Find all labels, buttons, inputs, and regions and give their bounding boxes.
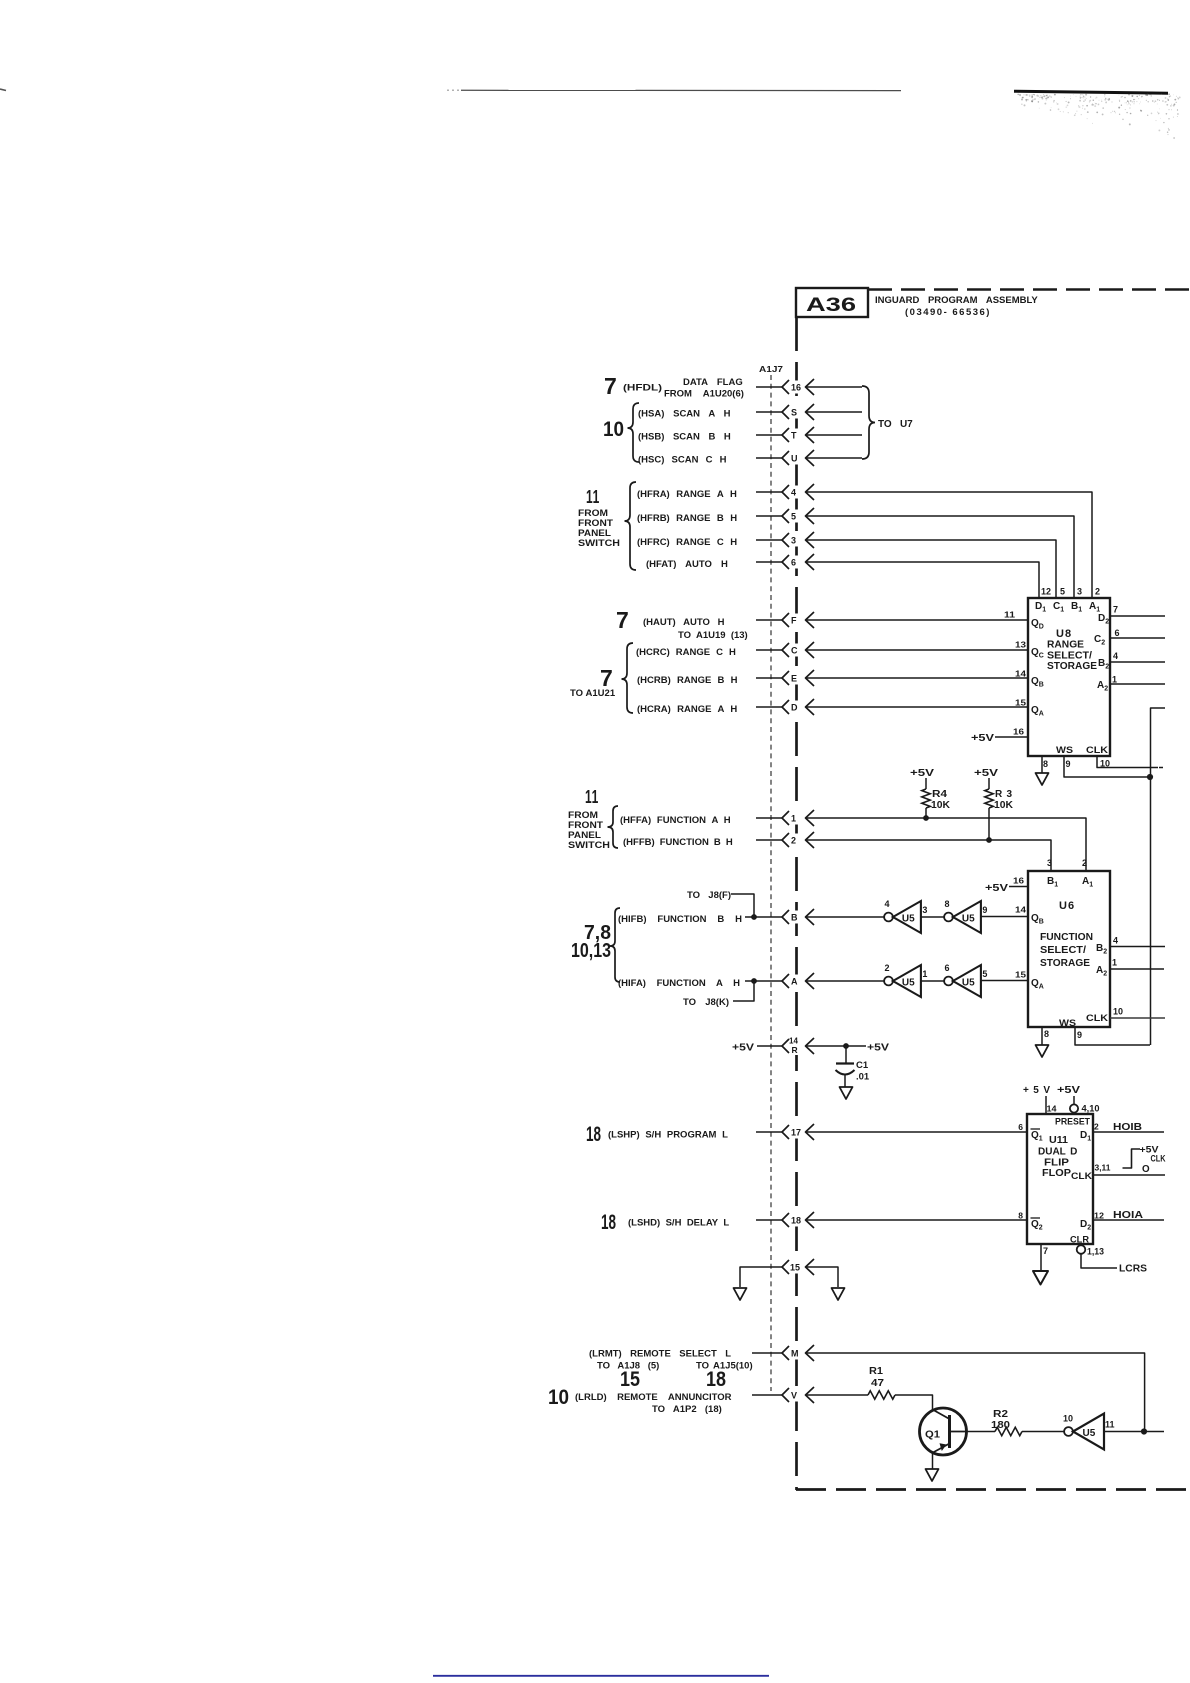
- svg-text:R: R: [792, 1045, 798, 1055]
- wire U8 output C2 pin 6: [1110, 637, 1165, 639]
- svg-text:8: 8: [1043, 759, 1048, 769]
- svg-text:18: 18: [791, 1215, 801, 1225]
- svg-text:Q1: Q1: [925, 1429, 940, 1441]
- svg-text:FRONT: FRONT: [568, 820, 604, 830]
- svg-text:3: 3: [1077, 587, 1082, 597]
- svg-text:16: 16: [1013, 727, 1024, 737]
- wire U8 WS pin 9: [1064, 756, 1148, 777]
- svg-text:7: 7: [1043, 1246, 1048, 1256]
- wire U6 CLK pin 10: [1110, 1017, 1165, 1019]
- svg-text:1,13: 1,13: [1087, 1247, 1104, 1257]
- transistor Q1: [920, 1408, 967, 1455]
- svg-text:3: 3: [791, 535, 796, 545]
- capacitor C1 .01: [836, 1046, 870, 1087]
- svg-text:STORAGE: STORAGE: [1040, 958, 1090, 969]
- svg-text:3,11: 3,11: [1095, 1163, 1111, 1173]
- svg-text:15: 15: [620, 1368, 640, 1391]
- wire Q1 collector to R2: [967, 1431, 996, 1433]
- svg-text:6: 6: [791, 557, 796, 567]
- svg-text:RANGE: RANGE: [1047, 640, 1084, 651]
- connector pin B (HIFB): [618, 890, 884, 925]
- svg-text:E: E: [791, 673, 797, 683]
- wire U8 CLK pin 10: [1097, 756, 1158, 768]
- svg-text:11: 11: [1105, 1420, 1115, 1430]
- wire Q1 emitter to ground: [932, 1454, 934, 1470]
- svg-text:(HSB) SCAN B H: (HSB) SCAN B H: [638, 432, 731, 443]
- svg-text:F: F: [791, 615, 797, 625]
- svg-text:(HFDL): (HFDL): [623, 383, 662, 394]
- svg-text:TO A1U21: TO A1U21: [570, 688, 616, 699]
- connector pin E (HCRB): [637, 670, 1028, 686]
- svg-text:10: 10: [1063, 1414, 1073, 1424]
- wire U6 pin 8 stem: [1041, 1027, 1043, 1045]
- power +5V to U11 preset pins 4,10: [1057, 1085, 1100, 1114]
- svg-text:5: 5: [791, 511, 796, 521]
- svg-text:18: 18: [706, 1368, 726, 1391]
- svg-text:(LRMT) REMOTE SELECT L: (LRMT) REMOTE SELECT L: [589, 1349, 731, 1360]
- svg-text:+5V: +5V: [732, 1043, 754, 1054]
- svg-text:TO J8(F): TO J8(F): [687, 890, 731, 901]
- svg-text:+5V: +5V: [971, 733, 994, 744]
- svg-text:O: O: [1142, 1164, 1150, 1175]
- svg-text:FLIP: FLIP: [1044, 1158, 1069, 1169]
- svg-text:M: M: [791, 1348, 799, 1358]
- svg-text:11: 11: [586, 487, 600, 507]
- resistor R2 180: [991, 1409, 1022, 1436]
- buffer U5 pins 8-9 (HIFB): [944, 899, 1028, 933]
- node R3 to HFFB line: [986, 837, 992, 843]
- group label 7,8 10,13: [571, 908, 620, 982]
- svg-text:PANEL: PANEL: [578, 528, 612, 538]
- svg-text:U5: U5: [962, 914, 975, 925]
- svg-text:TO A1U19 (13): TO A1U19 (13): [678, 630, 748, 641]
- wire U11 pin 7 stem: [1040, 1244, 1042, 1271]
- assembly A36 title box: [796, 288, 1038, 318]
- svg-text:R4: R4: [932, 789, 947, 800]
- wire U6 output B2 pin 4: [1110, 946, 1165, 948]
- svg-text:FROM A1U20(6): FROM A1U20(6): [664, 389, 744, 400]
- svg-text:8: 8: [1044, 1029, 1049, 1039]
- wire U8 output A2 pin 1: [1110, 683, 1165, 685]
- svg-text:FROM: FROM: [578, 508, 608, 518]
- svg-text:T: T: [791, 430, 797, 440]
- svg-text:FLOP: FLOP: [1042, 1168, 1071, 1179]
- wire U11 CLK pins 3,11: [1093, 1174, 1165, 1176]
- svg-text:11: 11: [1004, 610, 1015, 620]
- svg-text:U8: U8: [1056, 628, 1072, 640]
- svg-text:WS: WS: [1056, 745, 1073, 756]
- svg-text:(HFRC) RANGE C H: (HFRC) RANGE C H: [637, 537, 737, 548]
- svg-text:STORAGE: STORAGE: [1047, 661, 1097, 672]
- svg-text:HOIA: HOIA: [1113, 1210, 1143, 1221]
- svg-text:13: 13: [1015, 640, 1026, 650]
- buffer U5 pins 10-11 (remote): [1063, 1414, 1115, 1450]
- svg-text:10K: 10K: [931, 800, 951, 811]
- svg-text:17: 17: [791, 1127, 801, 1137]
- connector pin M (LRMT): [589, 1345, 1145, 1432]
- svg-text:5: 5: [982, 969, 987, 979]
- svg-text:6: 6: [1018, 1122, 1023, 1132]
- ground at C1: [840, 1087, 853, 1099]
- svg-text:TO A1P2 (18): TO A1P2 (18): [652, 1404, 722, 1415]
- svg-text:U6: U6: [1059, 900, 1075, 912]
- connector pin V (LRLD): [548, 1386, 868, 1415]
- connector pin 17 (LSHP): [586, 1123, 1027, 1146]
- signal LCRS from U11 CLR: [1081, 1254, 1147, 1275]
- svg-text:8: 8: [945, 899, 950, 909]
- buffer U5 pins 2-1 (HIFA): [884, 963, 944, 997]
- svg-text:(LSHD) S/H DELAY L: (LSHD) S/H DELAY L: [628, 1218, 729, 1229]
- node R4 to HFFA line: [923, 815, 929, 821]
- power +5V to U11 pin 14: [1023, 1085, 1050, 1114]
- svg-text:D: D: [791, 702, 798, 712]
- assembly A36 border left: [795, 317, 798, 1490]
- svg-text:LCRS: LCRS: [1119, 1264, 1147, 1275]
- svg-text:SWITCH: SWITCH: [578, 538, 620, 548]
- svg-text:11: 11: [585, 787, 599, 807]
- svg-text:CLK: CLK: [1086, 1013, 1108, 1024]
- svg-text:PRESET: PRESET: [1055, 1117, 1091, 1127]
- node +5V junction: [843, 1043, 849, 1049]
- svg-text:R2: R2: [993, 1409, 1008, 1420]
- svg-text:1: 1: [1112, 675, 1117, 685]
- svg-text:2: 2: [1095, 587, 1100, 597]
- svg-text:9: 9: [1077, 1030, 1082, 1040]
- connector pin U (HSC): [638, 450, 862, 466]
- connector pin F (HAUT): [616, 607, 1028, 641]
- svg-text:5: 5: [1060, 587, 1065, 597]
- wire U8 pin 8 stem: [1041, 756, 1043, 773]
- svg-text:10,13: 10,13: [571, 940, 611, 962]
- svg-text:+5V: +5V: [1057, 1085, 1080, 1096]
- bracket TO U7: [862, 386, 913, 459]
- svg-text:14: 14: [1047, 1104, 1057, 1114]
- svg-text:15: 15: [790, 1262, 800, 1272]
- svg-text:4: 4: [1113, 651, 1118, 661]
- svg-text:CLK: CLK: [1151, 1154, 1166, 1165]
- svg-text:6: 6: [945, 963, 950, 973]
- clear bubble U11 pins 1,13: [1077, 1245, 1104, 1256]
- svg-text:A1J7: A1J7: [759, 364, 783, 374]
- svg-text:10: 10: [548, 1386, 569, 1409]
- resistor R1 47: [868, 1366, 895, 1399]
- svg-text:(HFAT) AUTO H: (HFAT) AUTO H: [646, 559, 728, 570]
- svg-text:+5V: +5V: [985, 883, 1008, 894]
- svg-text:1: 1: [791, 813, 796, 823]
- svg-text:SELECT/: SELECT/: [1040, 945, 1086, 956]
- svg-text:U: U: [791, 453, 798, 463]
- wire R1 to Q1 base: [895, 1395, 933, 1410]
- ground left of pin 15: [734, 1288, 747, 1300]
- svg-text:4,10: 4,10: [1082, 1104, 1100, 1114]
- connector pin T (HSB): [638, 427, 862, 443]
- svg-text:10: 10: [603, 418, 624, 441]
- svg-text:7: 7: [616, 607, 629, 633]
- node LRMT junction: [1141, 1428, 1147, 1434]
- svg-text:S: S: [791, 407, 797, 417]
- group label 7 TO A1U21: [570, 643, 633, 713]
- connector pin D (HCRA): [637, 699, 1028, 715]
- op IC U11 DUAL D FLIP FLOP: [1018, 1104, 1111, 1257]
- svg-text:8: 8: [1018, 1211, 1023, 1221]
- svg-text:+5V: +5V: [974, 768, 998, 779]
- connector A1J7 dashed line: [770, 375, 772, 1391]
- op IC U8 RANGE SELECT/STORAGE: [1004, 587, 1120, 770]
- svg-text:INGUARD PROGRAM ASSEMBLY: INGUARD PROGRAM ASSEMBLY: [875, 295, 1038, 306]
- wire U5 output 11 to LRMT net: [1104, 1431, 1141, 1433]
- ground at Q1 emitter: [926, 1469, 939, 1481]
- svg-text:C1: C1: [856, 1060, 869, 1071]
- svg-text:DATA FLAG: DATA FLAG: [683, 377, 743, 388]
- svg-text:10: 10: [1113, 1007, 1123, 1017]
- svg-text:R1: R1: [869, 1366, 883, 1377]
- svg-text:9: 9: [982, 905, 987, 915]
- svg-text:B: B: [791, 912, 798, 922]
- svg-text:12: 12: [1094, 1211, 1104, 1221]
- ground at U8 pin 8: [1036, 773, 1049, 785]
- svg-text:A: A: [791, 976, 798, 986]
- wire R2 to U5 input bubble: [1022, 1431, 1064, 1433]
- node junction to J8(K): [751, 978, 757, 984]
- connector pin 16 (HFDL): [604, 373, 862, 400]
- svg-text:HOIB: HOIB: [1113, 1122, 1142, 1133]
- svg-text:V: V: [791, 1390, 797, 1400]
- svg-text:WS: WS: [1059, 1018, 1076, 1029]
- svg-text:(HSA) SCAN A H: (HSA) SCAN A H: [638, 409, 731, 420]
- svg-text:15: 15: [1015, 970, 1026, 980]
- svg-text:TO U7: TO U7: [878, 419, 913, 430]
- connector pin 3 (HFRC): [637, 532, 1056, 598]
- connector pin 5 (HFRB): [637, 508, 1074, 598]
- clock waveform symbol: [1123, 1145, 1166, 1176]
- group label 11 FROM FRONT PANEL SWITCH: [578, 482, 636, 570]
- svg-text:(LSHP) S/H PROGRAM L: (LSHP) S/H PROGRAM L: [608, 1130, 728, 1141]
- assembly A36 border top: [868, 288, 1190, 291]
- svg-text:10K: 10K: [994, 800, 1014, 811]
- ground right of pin 15: [832, 1288, 845, 1300]
- group label 11 FROM FRONT PANEL SWITCH (function): [568, 787, 618, 850]
- svg-text:47: 47: [871, 1378, 885, 1389]
- svg-text:U11: U11: [1049, 1134, 1068, 1146]
- svg-text:2: 2: [1094, 1122, 1099, 1132]
- svg-text:(HSC) SCAN C H: (HSC) SCAN C H: [638, 455, 727, 466]
- svg-text:(HAUT) AUTO H: (HAUT) AUTO H: [643, 617, 725, 628]
- svg-text:3: 3: [922, 905, 927, 915]
- svg-text:4: 4: [885, 899, 890, 909]
- svg-text:PANEL: PANEL: [568, 830, 602, 840]
- svg-text:(HFRB) RANGE B H: (HFRB) RANGE B H: [637, 513, 737, 524]
- power +5V to U6 pin 16: [985, 883, 1028, 894]
- svg-text:18: 18: [601, 1211, 616, 1234]
- svg-text:2: 2: [885, 963, 890, 973]
- svg-text:SWITCH: SWITCH: [568, 840, 610, 850]
- svg-text:2: 2: [1082, 858, 1087, 868]
- svg-text:(03490- 66536): (03490- 66536): [905, 307, 991, 318]
- svg-text:16: 16: [791, 382, 801, 392]
- wire stub right of junction: [1147, 1431, 1164, 1433]
- power +5V to U8 pin 16: [971, 733, 1028, 744]
- ground at U6 pin 8: [1036, 1045, 1049, 1057]
- svg-text:4: 4: [1113, 936, 1118, 946]
- wire WS vertical net with corner to edge: [1151, 708, 1166, 1045]
- svg-text:12: 12: [1041, 587, 1051, 597]
- wire U6 WS pin 9: [1075, 1027, 1150, 1045]
- svg-text:1: 1: [922, 969, 927, 979]
- svg-text:(HIFA) FUNCTION A H: (HIFA) FUNCTION A H: [618, 978, 740, 989]
- signal HOIB (U11 D1 pin 2): [1093, 1122, 1164, 1133]
- svg-text:2: 2: [791, 835, 796, 845]
- wire U8 output D2 pin 7: [1110, 615, 1165, 617]
- svg-text:(HIFB) FUNCTION B H: (HIFB) FUNCTION B H: [618, 914, 742, 925]
- connector pin A (HIFA): [618, 973, 884, 1008]
- connector pin S (HSA): [638, 404, 862, 420]
- svg-text:14: 14: [1015, 905, 1026, 915]
- svg-text:18: 18: [586, 1123, 601, 1146]
- svg-text:(HCRB) RANGE B H: (HCRB) RANGE B H: [637, 675, 738, 686]
- ground at U11 pin 7: [1033, 1271, 1048, 1285]
- svg-text:FUNCTION: FUNCTION: [1040, 932, 1093, 943]
- svg-text:FROM: FROM: [568, 810, 598, 820]
- node WS junction: [1147, 774, 1153, 780]
- node junction to J8(F): [751, 914, 757, 920]
- svg-text:R 3: R 3: [995, 789, 1012, 800]
- svg-text:C: C: [791, 645, 798, 655]
- svg-text:+5V: +5V: [910, 768, 934, 779]
- resistor R4 10K with +5V: [910, 768, 951, 821]
- svg-text:U5: U5: [962, 978, 975, 989]
- svg-text:CLR: CLR: [1070, 1235, 1089, 1246]
- connector pin 18 (LSHD): [601, 1211, 1027, 1234]
- svg-text:FRONT: FRONT: [578, 518, 614, 528]
- svg-text:CLK: CLK: [1071, 1171, 1092, 1182]
- assembly A36 border bottom: [796, 1488, 1190, 1491]
- svg-text:7: 7: [604, 373, 617, 399]
- group label 10 (scan lines to sheet 10): [603, 403, 639, 462]
- connector pin 15 (grounded both sides): [740, 1259, 838, 1287]
- op IC U6 FUNCTION SELECT/STORAGE: [1013, 858, 1123, 1040]
- svg-text:A36: A36: [806, 295, 856, 316]
- connector pin 2 (HFFB): [623, 832, 1051, 871]
- wire U8 output B2 pin 4: [1110, 661, 1165, 663]
- svg-text:DUAL D: DUAL D: [1038, 1147, 1077, 1158]
- svg-text:TO J8(K): TO J8(K): [683, 997, 729, 1008]
- svg-text:(HCRC) RANGE C H: (HCRC) RANGE C H: [636, 647, 736, 658]
- svg-text:4: 4: [791, 487, 796, 497]
- svg-text:SELECT/: SELECT/: [1047, 651, 1092, 662]
- svg-text:3: 3: [1047, 858, 1052, 868]
- connector pin 4 (HFRA): [637, 484, 1092, 598]
- svg-text:14: 14: [1015, 669, 1026, 679]
- svg-text:U5: U5: [1083, 1428, 1096, 1439]
- svg-text:CLK: CLK: [1086, 745, 1108, 756]
- svg-text:+ 5 V: + 5 V: [1023, 1085, 1050, 1096]
- svg-text:15: 15: [1015, 698, 1026, 708]
- wire U6 output A2 pin 1: [1110, 968, 1164, 970]
- svg-text:7: 7: [1113, 605, 1118, 615]
- resistor R3 10K with +5V: [974, 768, 1014, 843]
- svg-text:9: 9: [1066, 759, 1071, 769]
- svg-text:(LRLD) REMOTE ANNUNCITOR: (LRLD) REMOTE ANNUNCITOR: [575, 1392, 732, 1403]
- svg-text:U5: U5: [902, 914, 915, 925]
- svg-text:(HCRA) RANGE A H: (HCRA) RANGE A H: [637, 704, 737, 715]
- connector pin 1 (HFFA): [620, 810, 1086, 871]
- svg-text:(HFFA) FUNCTION A H: (HFFA) FUNCTION A H: [620, 815, 731, 826]
- svg-text:1: 1: [1112, 958, 1117, 968]
- connector pin C (HCRC): [636, 642, 1028, 658]
- buffer U5 pins 6-5 (HIFA): [944, 963, 1028, 997]
- svg-text:.01: .01: [856, 1072, 870, 1083]
- connector pin 6 (HFAT): [646, 554, 1039, 598]
- svg-text:16: 16: [1013, 876, 1024, 886]
- buffer U5 pins 4-3 (HIFB): [884, 899, 944, 933]
- svg-text:(HFFB) FUNCTION B H: (HFFB) FUNCTION B H: [623, 837, 733, 848]
- svg-text:(HFRA) RANGE A H: (HFRA) RANGE A H: [637, 489, 737, 500]
- svg-text:+5V: +5V: [867, 1043, 889, 1054]
- signal HOIA (U11 D2 pin 12): [1093, 1210, 1164, 1221]
- connector pin 14-R (+5V): [732, 1036, 889, 1055]
- svg-text:U5: U5: [902, 978, 915, 989]
- svg-text:6: 6: [1115, 628, 1120, 638]
